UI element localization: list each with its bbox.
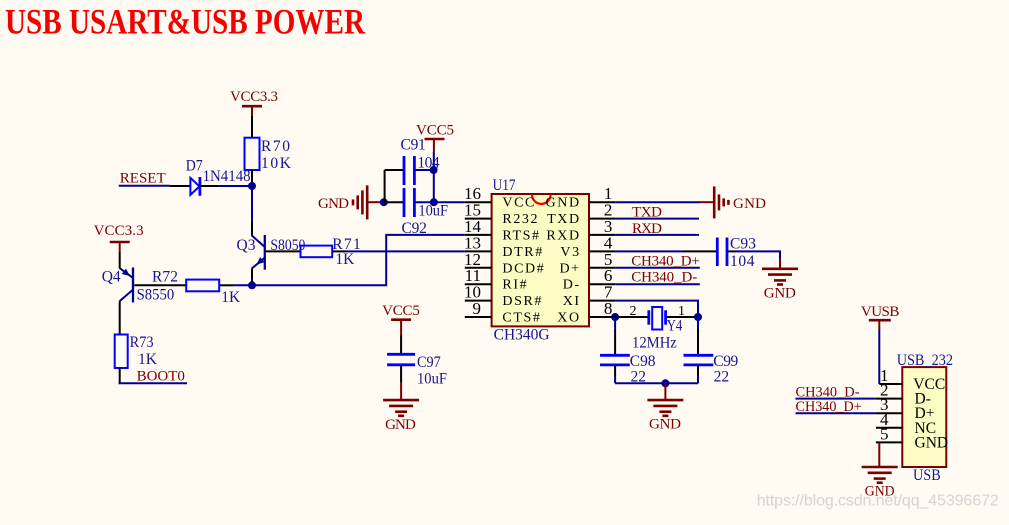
svg-text:Q4: Q4 [102,269,121,286]
pin 5 D+ [589,267,615,269]
svg-text:R232: R232 [502,212,539,227]
svg-text:BOOT0: BOOT0 [137,368,185,384]
pin 16 VCC [465,201,492,203]
svg-text:GND: GND [546,196,581,211]
wire Q4 collector to R73 [119,301,121,334]
svg-text:TXD: TXD [632,205,662,221]
svg-text:10uF: 10uF [417,371,447,388]
svg-text:C98: C98 [630,353,656,370]
power VCC5 (C97) [382,303,420,335]
wire pin4 to C93 [615,250,683,252]
pin 8 XO [589,316,615,318]
svg-text:RXD: RXD [632,221,662,237]
power VCC5 (top) [416,123,454,153]
IC left pins [464,184,545,325]
wire cap branch vertical [384,170,386,202]
pin 7 XI [589,300,615,302]
svg-text:D7: D7 [186,158,203,175]
pin 6 D- [589,283,615,285]
node junction pin8/XO [611,313,619,321]
wire VCC3.3 to R70 [251,116,253,138]
wire CH340_D- to pin2 [796,398,876,400]
node junction Q3/R72 [248,281,256,289]
svg-text:C92: C92 [402,220,427,237]
node RESET wire [119,185,170,187]
svg-text:22: 22 [714,369,730,386]
pin 9 CTS# [465,316,492,318]
wire VCC5 down [433,152,435,202]
wire XO junction down to C98 [614,317,616,329]
ground GND (C93) [762,269,798,302]
svg-text:9: 9 [473,299,482,318]
svg-text:Q3: Q3 [237,237,256,254]
svg-text:XI: XI [563,294,581,309]
svg-text:VCC3.3: VCC3.3 [230,89,278,105]
node junction ground rail [661,379,669,387]
pin 13 DTR# [465,250,492,252]
pin 14 RTS# [465,234,492,236]
wire XO to crystal [615,316,647,318]
svg-text:GND: GND [649,417,681,433]
node junction C91/VCC5 [430,166,438,174]
svg-text:GND: GND [385,417,416,433]
svg-text:RTS#: RTS# [502,228,540,243]
pin 5 GND [876,441,902,443]
svg-text:D-: D- [563,278,581,293]
svg-text:GND: GND [915,434,949,451]
wire C93 to GND [736,251,780,258]
wire pin3 RXD [615,234,699,236]
pin 12 DCD# [465,267,492,269]
resistor R71 1K [301,236,361,268]
capacitor C92 10uF [384,188,449,220]
svg-text:C99: C99 [713,353,738,370]
svg-text:CH340_D+: CH340_D+ [631,253,700,269]
wire crystal right down to C99 [697,317,699,329]
wire Q3 emitter down [251,269,253,279]
wire pin7 XI to crystal right [615,301,698,317]
svg-text:8: 8 [604,299,613,318]
svg-text:GND: GND [764,285,796,301]
diode D7 1N4148 [170,158,251,196]
wire R70 to junction [251,170,253,186]
svg-text:USB_232: USB_232 [897,352,953,369]
pin 1 VCC [879,383,902,385]
svg-text:XO: XO [557,311,580,326]
svg-text:S8550: S8550 [137,287,175,304]
wire CH340_D+ to pin3 [796,412,876,414]
svg-text:VCC: VCC [502,196,536,211]
svg-text:2: 2 [630,304,637,319]
svg-text:DCD#: DCD# [502,261,545,276]
wire pin1 to GND [615,201,700,203]
capacitor C99 22 [684,353,739,386]
capacitor C98 22 [600,353,656,386]
svg-text:C93: C93 [730,235,756,252]
wire R72 to junction [219,284,233,286]
pin 4 V3 [589,250,615,252]
wire R71 to pin13 [332,250,345,252]
resistor R72 1K [152,269,241,307]
wire pin5 CH340_D+ [615,267,700,269]
capacitor C93 104 [717,235,756,270]
pin 2 D- [876,398,902,400]
wire C97 to GND [400,366,402,383]
ground GND (pin1) [700,186,766,218]
svg-text:1K: 1K [335,251,355,268]
svg-text:CTS#: CTS# [502,311,541,326]
node junction caps-left [380,198,388,206]
svg-text:C97: C97 [417,354,441,371]
svg-text:Y4: Y4 [667,317,683,334]
svg-text:CH340_D-: CH340_D- [631,270,697,286]
svg-text:12MHz: 12MHz [632,335,677,352]
wire pin6 CH340_D- [615,283,700,285]
connector USB_232 box [897,352,953,484]
transistor Q4 S8550 [102,268,175,304]
svg-text:D+: D+ [559,261,580,276]
power VCC3.3 (top) [230,89,278,116]
svg-text:R72: R72 [152,269,178,286]
svg-text:RESET: RESET [120,170,166,186]
wire Q3 base to R71 [266,250,301,252]
IC U17 CH340G [492,177,589,344]
power VCC3.3 (left) [94,223,144,252]
svg-text:C91: C91 [401,137,426,154]
ground GND (crystal) [647,383,683,432]
crystal Y4 12MHz [630,304,696,352]
wire VUSB to pin1 [878,330,880,384]
ground GND (C97) [383,400,419,433]
power VUSB [861,304,900,330]
wire Q4 base to R72 [134,284,186,286]
svg-text:VCC3.3: VCC3.3 [94,223,144,239]
svg-text:VCC5: VCC5 [416,123,454,139]
svg-text:GND: GND [318,196,349,212]
pin 11 RI# [465,283,492,285]
svg-text:10K: 10K [261,155,292,172]
svg-text:R73: R73 [130,334,154,351]
svg-text:RI#: RI# [502,278,528,293]
wire pin2 TXD [615,218,699,220]
svg-text:CH340_D+: CH340_D+ [796,399,862,415]
svg-text:104: 104 [730,253,755,270]
node junction crystal right [694,313,702,321]
pin 4 NC [876,427,902,429]
svg-text:5: 5 [880,424,889,443]
svg-text:CH340G: CH340G [494,327,550,344]
node junction VCC5/pin16 [430,198,438,206]
wire crystal ground rail [615,382,698,384]
pin 3 D+ [876,412,902,414]
svg-text:USB USART&USB POWER: USB USART&USB POWER [5,2,366,42]
svg-text:RXD: RXD [546,228,580,243]
svg-text:V3: V3 [560,245,580,260]
wire VCC5 to C97 [400,336,402,354]
ground GND (USB) [862,442,898,499]
pin 10 DSR# [465,300,492,302]
wire junction to Q3 collector [251,186,253,222]
pin 2 TXD [589,218,615,220]
resistor R70 10K [245,138,292,172]
capacitor C97 10uF [387,354,447,388]
ground GND (left of C91) [318,185,384,219]
IC right pins [546,184,616,325]
wire to pin16 [434,201,465,203]
svg-text:1K: 1K [221,289,241,306]
svg-text:VUSB: VUSB [861,304,900,320]
wire R73 to BOOT0 [119,368,121,383]
node junction D7/R70/Q3 [248,182,256,190]
svg-text:USB: USB [913,467,941,484]
svg-text:TXD: TXD [547,212,581,227]
svg-text:U17: U17 [493,177,516,194]
svg-text:R70: R70 [261,138,290,155]
svg-text:VCC5: VCC5 [382,303,420,319]
wire VCC3.3 to Q4 emitter [119,252,121,268]
resistor R73 1K [115,334,158,368]
transistor Q3 S8050 [237,235,306,270]
svg-text:GND: GND [733,196,766,212]
connector pins [876,366,948,451]
svg-text:1K: 1K [138,351,158,368]
svg-text:DSR#: DSR# [502,294,543,309]
capacitor C91 104 [385,137,440,186]
node BOOT0 wire [119,382,188,384]
svg-text:1N4148: 1N4148 [203,168,251,185]
pin 3 RXD [589,234,615,236]
wire D7 to junction [219,185,252,187]
svg-text:https://blog.csdn.net/qq_45396: https://blog.csdn.net/qq_45396672 [757,493,999,510]
svg-text:CH340_D-: CH340_D- [796,385,860,401]
svg-text:DTR#: DTR# [502,245,543,260]
pin 1 GND [589,201,615,203]
wire DTR net: junction to pin14 [252,235,465,285]
pin 15 R232 [465,218,492,220]
